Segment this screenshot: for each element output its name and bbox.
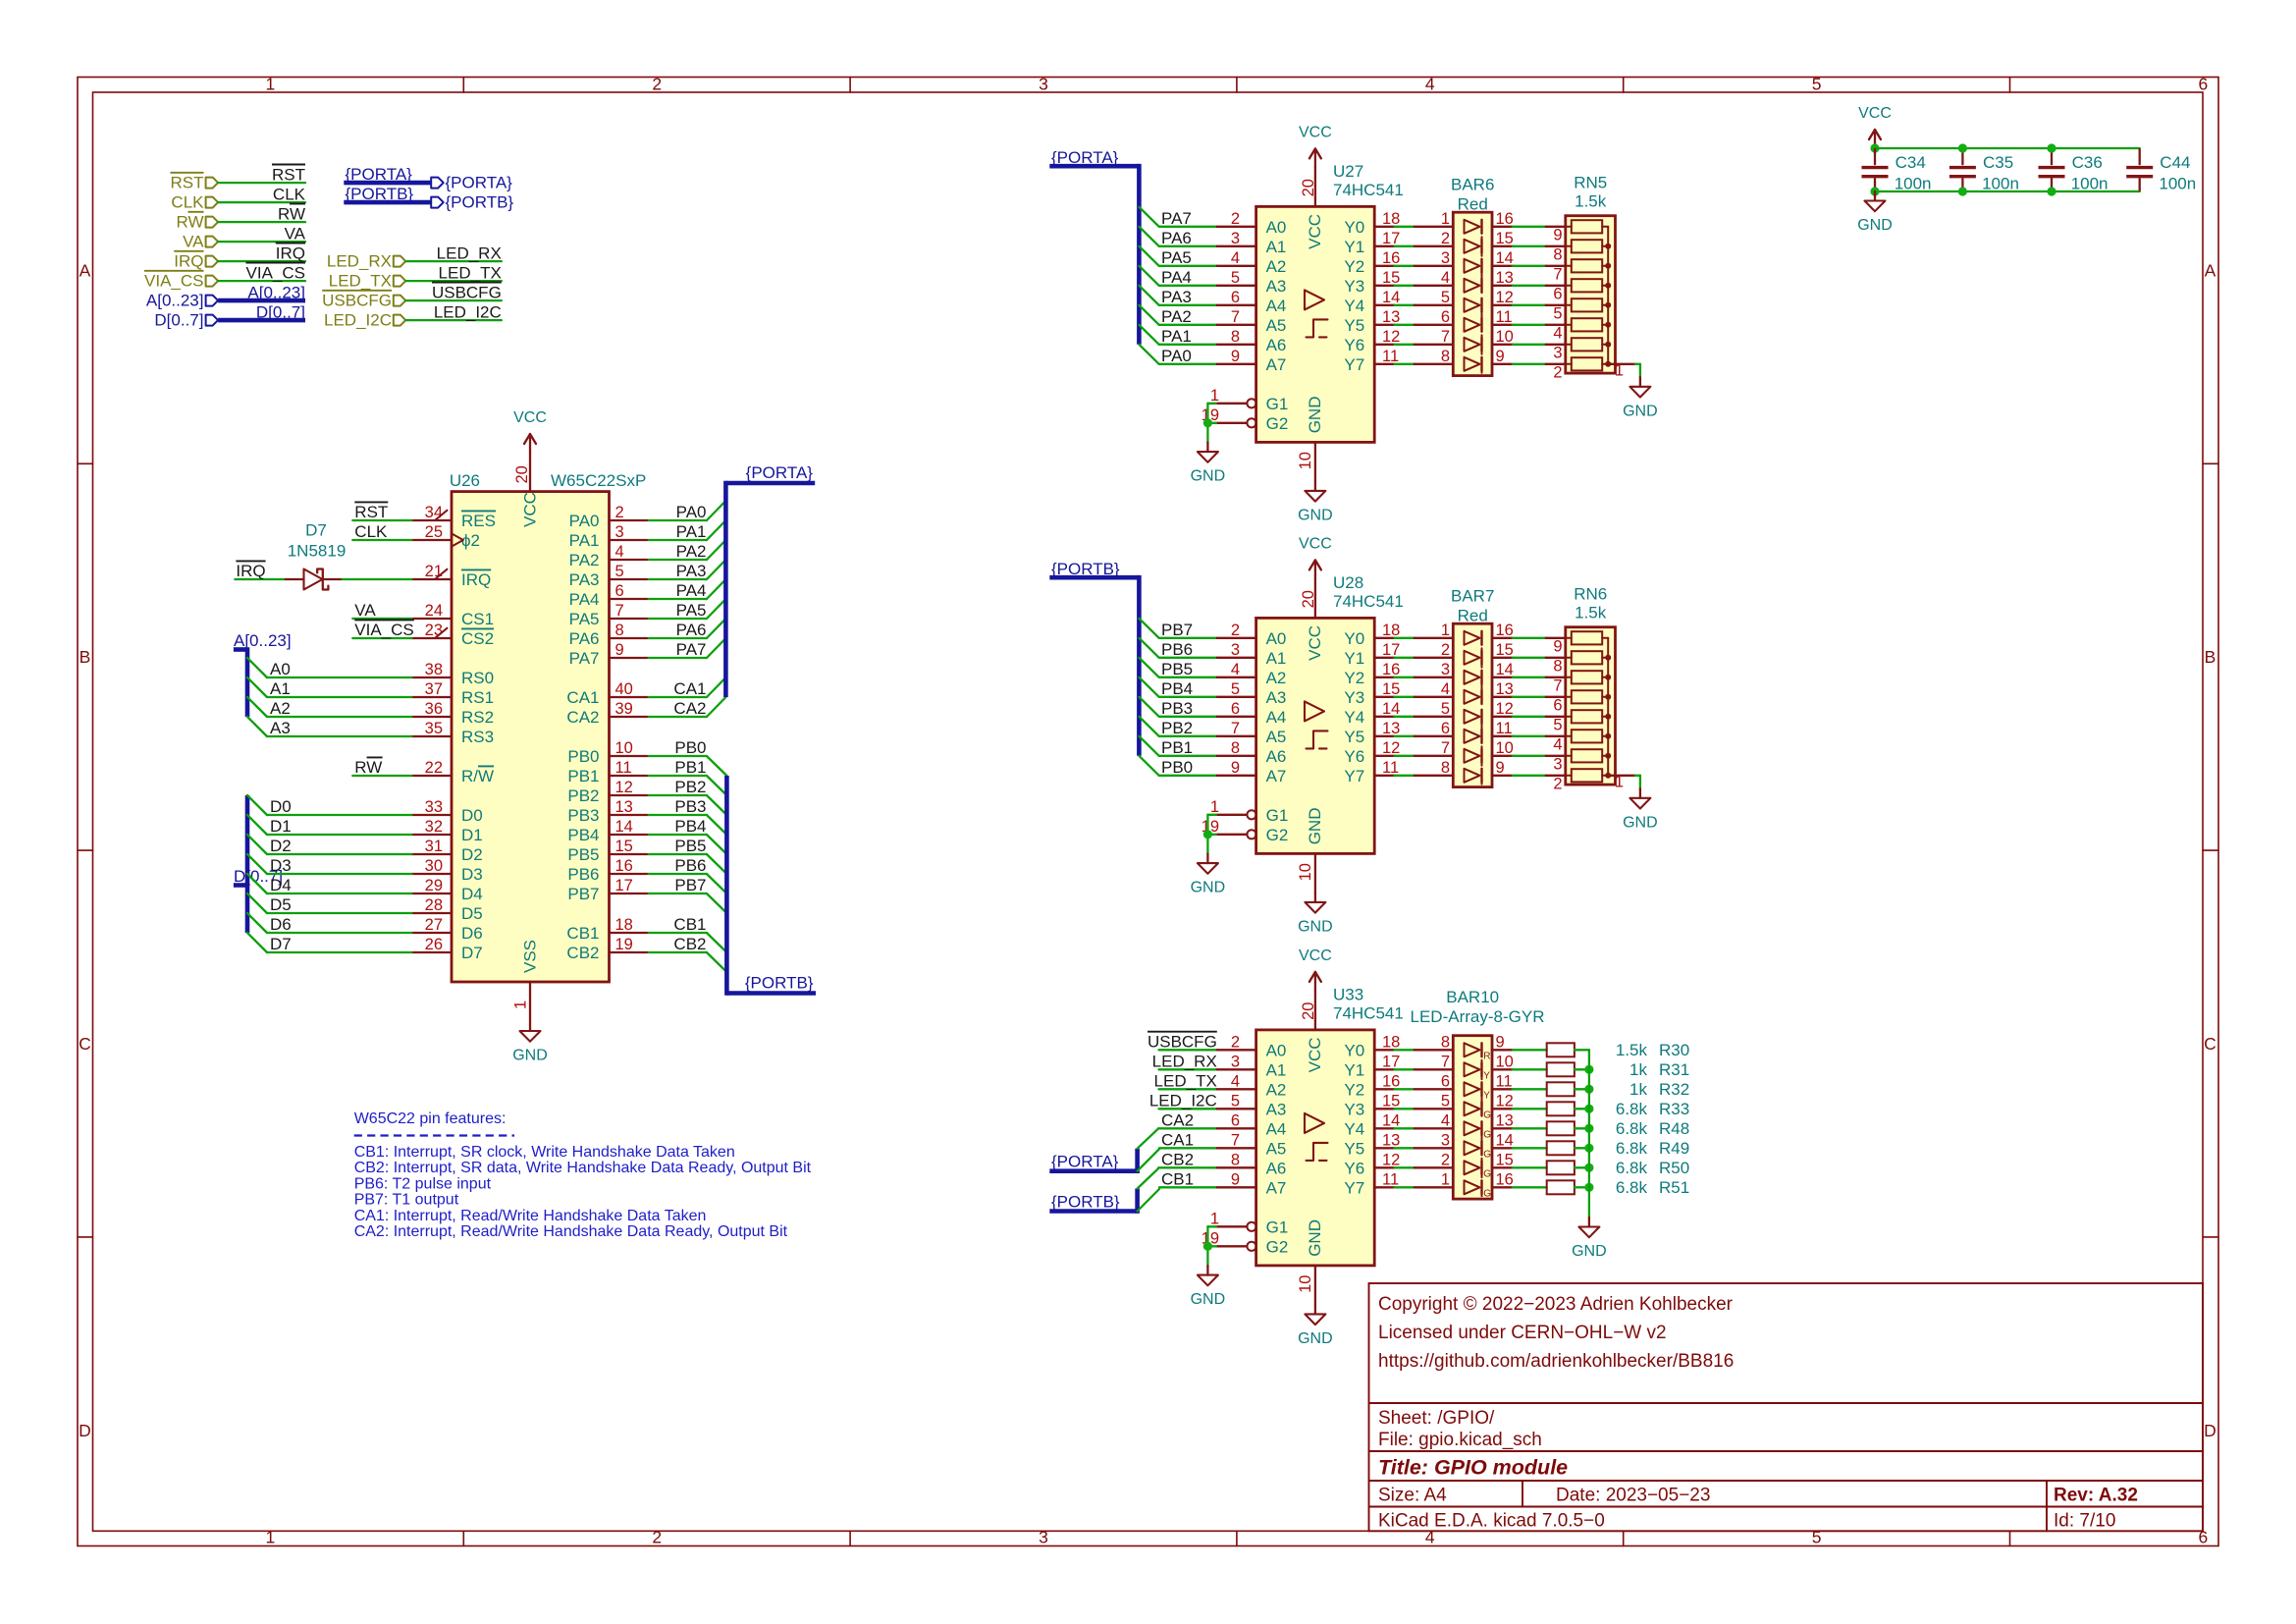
svg-text:R32: R32 xyxy=(1659,1080,1689,1099)
svg-text:U28: U28 xyxy=(1333,573,1363,592)
svg-text:{PORTB}: {PORTB} xyxy=(745,974,814,993)
svg-text:Sheet: /GPIO/: Sheet: /GPIO/ xyxy=(1378,1408,1495,1429)
svg-text:PA5: PA5 xyxy=(1161,248,1192,267)
svg-text:PB0: PB0 xyxy=(567,747,599,766)
svg-text:3: 3 xyxy=(1553,344,1562,361)
svg-text:14: 14 xyxy=(1496,249,1514,267)
svg-text:3: 3 xyxy=(1039,1528,1048,1547)
svg-text:4: 4 xyxy=(1553,324,1562,342)
svg-text:31: 31 xyxy=(425,838,443,855)
svg-text:20: 20 xyxy=(1300,590,1317,608)
svg-text:8: 8 xyxy=(1553,657,1562,675)
svg-text:PA2: PA2 xyxy=(1161,307,1192,326)
svg-text:VCC: VCC xyxy=(1306,214,1324,249)
svg-text:7: 7 xyxy=(1553,677,1562,694)
svg-text:Y: Y xyxy=(1483,1071,1490,1082)
svg-text:15: 15 xyxy=(1382,269,1400,287)
svg-text:D5: D5 xyxy=(461,904,483,923)
svg-text:36: 36 xyxy=(425,700,443,718)
svg-text:RN5: RN5 xyxy=(1574,173,1607,191)
svg-text:17: 17 xyxy=(1382,1053,1400,1070)
svg-text:3: 3 xyxy=(615,523,624,541)
svg-text:29: 29 xyxy=(425,877,443,894)
svg-text:A[0..23]: A[0..23] xyxy=(146,292,204,310)
svg-text:A5: A5 xyxy=(1266,728,1287,746)
svg-text:RW: RW xyxy=(354,758,382,777)
svg-text:D2: D2 xyxy=(461,845,483,864)
svg-text:PB7: PB7 xyxy=(1161,621,1193,639)
svg-text:PB6: PB6 xyxy=(567,865,599,884)
svg-text:13: 13 xyxy=(1382,720,1400,737)
svg-text:R51: R51 xyxy=(1659,1178,1689,1197)
svg-text:A7: A7 xyxy=(1266,767,1287,785)
svg-text:16: 16 xyxy=(1496,622,1514,639)
svg-text:{PORTB}: {PORTB} xyxy=(446,193,514,212)
svg-text:9: 9 xyxy=(1496,1033,1505,1051)
svg-text:D7: D7 xyxy=(461,944,483,962)
svg-text:17: 17 xyxy=(615,877,633,894)
svg-text:4: 4 xyxy=(1441,1111,1450,1129)
svg-text:A0: A0 xyxy=(1266,1042,1287,1060)
svg-text:A0: A0 xyxy=(1266,629,1287,648)
svg-text:Y0: Y0 xyxy=(1344,629,1364,648)
svg-text:VA: VA xyxy=(285,224,306,243)
svg-text:7: 7 xyxy=(615,602,624,620)
svg-text:{PORTA}: {PORTA} xyxy=(746,463,814,482)
svg-text:VCC: VCC xyxy=(1306,1037,1324,1072)
svg-text:CA2: CA2 xyxy=(673,699,706,718)
svg-text:G: G xyxy=(1483,1189,1491,1200)
svg-text:CA1: CA1 xyxy=(673,679,706,698)
svg-text:LED_I2C: LED_I2C xyxy=(1149,1092,1217,1110)
svg-text:A7: A7 xyxy=(1266,1179,1287,1198)
svg-text:16: 16 xyxy=(1382,249,1400,267)
svg-text:A1: A1 xyxy=(1266,1061,1287,1080)
svg-text:A[0..23]: A[0..23] xyxy=(234,631,292,650)
svg-text:PB6: PB6 xyxy=(674,856,706,875)
svg-text:Red: Red xyxy=(1458,606,1488,624)
svg-text:35: 35 xyxy=(425,720,443,737)
svg-text:G1: G1 xyxy=(1266,395,1289,413)
svg-text:20: 20 xyxy=(1300,179,1317,196)
svg-text:Y1: Y1 xyxy=(1344,1061,1364,1080)
svg-text:CS1: CS1 xyxy=(461,610,494,628)
svg-text:19: 19 xyxy=(615,936,633,953)
svg-text:6.8k: 6.8k xyxy=(1616,1100,1648,1118)
svg-text:R50: R50 xyxy=(1659,1159,1689,1177)
svg-text:R30: R30 xyxy=(1659,1041,1689,1059)
svg-text:100n: 100n xyxy=(2071,174,2109,192)
svg-text:D6: D6 xyxy=(270,915,292,934)
svg-text:Y6: Y6 xyxy=(1344,336,1364,354)
svg-text:PA5: PA5 xyxy=(676,601,707,620)
svg-text:GND: GND xyxy=(1306,397,1324,434)
svg-text:R: R xyxy=(1483,1052,1490,1062)
svg-text:CB1: Interrupt, SR clock, Writ: CB1: Interrupt, SR clock, Write Handshak… xyxy=(354,1144,735,1161)
svg-text:3: 3 xyxy=(1441,249,1450,267)
svg-text:12: 12 xyxy=(1496,1092,1514,1110)
svg-text:PB4: PB4 xyxy=(1161,679,1193,698)
svg-text:PA6: PA6 xyxy=(569,629,600,648)
svg-text:13: 13 xyxy=(1382,1131,1400,1149)
svg-text:5: 5 xyxy=(1812,75,1822,94)
svg-text:Licensed under CERN−OHL−W v2: Licensed under CERN−OHL−W v2 xyxy=(1378,1323,1667,1343)
svg-text:11: 11 xyxy=(1382,348,1399,365)
svg-text:2: 2 xyxy=(1231,210,1240,228)
svg-text:PB3: PB3 xyxy=(674,797,706,816)
svg-text:8: 8 xyxy=(1231,328,1240,346)
svg-text:11: 11 xyxy=(1496,1072,1513,1090)
svg-text:PB1: PB1 xyxy=(674,758,706,777)
svg-text:RS2: RS2 xyxy=(461,708,494,727)
svg-text:9: 9 xyxy=(1231,1170,1240,1188)
svg-text:20: 20 xyxy=(1300,1002,1317,1020)
svg-text:4: 4 xyxy=(1231,661,1240,678)
svg-text:3: 3 xyxy=(1231,1053,1240,1070)
svg-text:4: 4 xyxy=(1553,735,1562,753)
svg-text:38: 38 xyxy=(425,661,443,678)
svg-text:2: 2 xyxy=(1231,1033,1240,1051)
svg-text:14: 14 xyxy=(1496,661,1514,678)
svg-text:39: 39 xyxy=(615,700,633,718)
svg-text:27: 27 xyxy=(425,916,443,934)
svg-text:6: 6 xyxy=(1553,285,1562,302)
svg-text:CB1: CB1 xyxy=(566,924,599,943)
svg-text:Y5: Y5 xyxy=(1344,1140,1364,1159)
svg-text:5: 5 xyxy=(1441,289,1450,306)
svg-text:9: 9 xyxy=(1553,226,1562,244)
svg-text:GND: GND xyxy=(1191,468,1226,485)
svg-text:3: 3 xyxy=(1441,661,1450,678)
svg-text:D0: D0 xyxy=(461,806,483,825)
svg-text:3: 3 xyxy=(1231,230,1240,247)
svg-text:CLK: CLK xyxy=(273,185,306,203)
svg-text:1.5k: 1.5k xyxy=(1616,1041,1648,1059)
svg-text:G: G xyxy=(1483,1110,1491,1121)
svg-text:11: 11 xyxy=(1496,720,1513,737)
svg-text:10: 10 xyxy=(1297,1275,1314,1293)
svg-text:D2: D2 xyxy=(270,837,292,855)
svg-text:A4: A4 xyxy=(1266,708,1287,727)
svg-text:A5: A5 xyxy=(1266,316,1287,335)
svg-text:7: 7 xyxy=(1231,720,1240,737)
svg-text:1.5k: 1.5k xyxy=(1575,191,1607,210)
svg-text:CLK: CLK xyxy=(171,193,204,212)
svg-text:PB6: PB6 xyxy=(1161,640,1193,659)
svg-text:LED_I2C: LED_I2C xyxy=(324,311,392,330)
svg-text:A3: A3 xyxy=(1266,1101,1287,1119)
svg-text:6: 6 xyxy=(1441,1072,1450,1090)
svg-text:D0: D0 xyxy=(270,797,292,816)
svg-text:W65C22SxP: W65C22SxP xyxy=(551,471,646,490)
svg-text:Id: 7/10: Id: 7/10 xyxy=(2054,1511,2115,1532)
svg-text:5: 5 xyxy=(1441,700,1450,718)
svg-text:2: 2 xyxy=(652,1528,662,1547)
svg-text:{PORTA}: {PORTA} xyxy=(1051,1153,1119,1171)
svg-text:VIA_CS: VIA_CS xyxy=(144,272,203,291)
svg-text:11: 11 xyxy=(1496,308,1513,326)
svg-text:B: B xyxy=(2205,647,2216,667)
svg-text:D3: D3 xyxy=(461,865,483,884)
svg-text:USBCFG: USBCFG xyxy=(1148,1033,1217,1052)
svg-text:7: 7 xyxy=(1231,1131,1240,1149)
svg-text:PB5: PB5 xyxy=(1161,660,1193,678)
svg-text:13: 13 xyxy=(1496,1111,1514,1129)
svg-text:A4: A4 xyxy=(1266,297,1287,315)
svg-text:PA4: PA4 xyxy=(569,590,600,609)
svg-text:PB1: PB1 xyxy=(1161,738,1193,757)
svg-text:C44: C44 xyxy=(2160,153,2190,172)
svg-text:R31: R31 xyxy=(1659,1060,1689,1079)
svg-text:G: G xyxy=(1483,1169,1491,1180)
svg-text:26: 26 xyxy=(425,936,443,953)
svg-text:PB0: PB0 xyxy=(674,738,706,757)
svg-text:VCC: VCC xyxy=(1299,535,1332,552)
svg-text:A2: A2 xyxy=(1266,669,1287,687)
svg-text:PA1: PA1 xyxy=(1161,327,1192,346)
svg-text:A7: A7 xyxy=(1266,355,1287,374)
svg-text:{PORTB}: {PORTB} xyxy=(1051,1192,1120,1211)
svg-text:Title: GPIO module: Title: GPIO module xyxy=(1378,1456,1568,1480)
svg-text:RES: RES xyxy=(461,512,496,530)
svg-text:CA1: CA1 xyxy=(1161,1131,1194,1150)
svg-text:12: 12 xyxy=(1382,328,1400,346)
svg-text:Y4: Y4 xyxy=(1344,1120,1364,1139)
svg-text:D6: D6 xyxy=(461,924,483,943)
svg-text:15: 15 xyxy=(1382,1092,1400,1110)
svg-text:4: 4 xyxy=(1441,269,1450,287)
svg-text:100n: 100n xyxy=(1982,174,2019,192)
svg-text:17: 17 xyxy=(1382,641,1400,659)
svg-text:100n: 100n xyxy=(1895,174,1932,192)
svg-text:37: 37 xyxy=(425,680,443,698)
svg-text:5: 5 xyxy=(1231,1092,1240,1110)
svg-text:PA7: PA7 xyxy=(676,640,707,659)
svg-text:2: 2 xyxy=(1553,775,1562,792)
svg-text:Y3: Y3 xyxy=(1344,277,1364,296)
svg-text:CA2: CA2 xyxy=(566,708,599,727)
svg-text:D1: D1 xyxy=(461,826,483,844)
svg-text:5: 5 xyxy=(1231,269,1240,287)
svg-text:1.5k: 1.5k xyxy=(1575,603,1607,622)
svg-text:15: 15 xyxy=(1382,680,1400,698)
svg-text:16: 16 xyxy=(1496,1170,1514,1188)
svg-text:USBCFG: USBCFG xyxy=(322,292,392,310)
svg-text:U26: U26 xyxy=(450,471,480,490)
svg-text:74HC541: 74HC541 xyxy=(1333,181,1404,199)
svg-text:7: 7 xyxy=(1553,265,1562,283)
svg-text:IRQ: IRQ xyxy=(236,562,265,580)
svg-text:Y: Y xyxy=(1483,1091,1490,1102)
svg-text:Y2: Y2 xyxy=(1344,669,1364,687)
svg-text:1: 1 xyxy=(1441,622,1450,639)
svg-text:GND: GND xyxy=(1191,880,1226,896)
svg-text:PA2: PA2 xyxy=(676,542,707,561)
svg-text:PB2: PB2 xyxy=(674,778,706,796)
svg-text:10: 10 xyxy=(615,739,633,757)
svg-text:A2: A2 xyxy=(1266,257,1287,276)
svg-text:16: 16 xyxy=(1496,210,1514,228)
svg-text:15: 15 xyxy=(615,838,633,855)
svg-text:A6: A6 xyxy=(1266,1160,1287,1178)
svg-text:6: 6 xyxy=(2199,75,2209,94)
svg-text:12: 12 xyxy=(1496,700,1514,718)
svg-text:LED_I2C: LED_I2C xyxy=(434,302,502,321)
svg-text:PB0: PB0 xyxy=(1161,758,1193,777)
svg-text:15: 15 xyxy=(1496,230,1514,247)
svg-text:3: 3 xyxy=(1039,75,1048,94)
svg-text:D1: D1 xyxy=(270,817,292,836)
svg-text:Y7: Y7 xyxy=(1344,767,1364,785)
svg-text:9: 9 xyxy=(1231,348,1240,365)
svg-text:A0: A0 xyxy=(270,660,291,678)
svg-text:Y1: Y1 xyxy=(1344,649,1364,668)
svg-text:2: 2 xyxy=(1441,230,1450,247)
svg-text:5: 5 xyxy=(1553,304,1562,322)
svg-text:4: 4 xyxy=(1231,249,1240,267)
svg-text:PB6: T2 pulse input: PB6: T2 pulse input xyxy=(354,1175,492,1192)
svg-text:BAR7: BAR7 xyxy=(1451,586,1494,605)
svg-text:A: A xyxy=(2205,260,2216,280)
svg-text:CA2: Interrupt, Read/Write Han: CA2: Interrupt, Read/Write Handshake Dat… xyxy=(354,1223,788,1240)
svg-text:18: 18 xyxy=(1382,1033,1400,1051)
svg-text:PA0: PA0 xyxy=(1161,347,1192,365)
svg-text:8: 8 xyxy=(1441,759,1450,777)
svg-text:PB1: PB1 xyxy=(567,767,599,785)
svg-text:PB2: PB2 xyxy=(1161,719,1193,737)
svg-text:14: 14 xyxy=(1382,289,1400,306)
svg-text:12: 12 xyxy=(615,779,633,796)
svg-text:G2: G2 xyxy=(1266,826,1289,844)
svg-text:1: 1 xyxy=(1615,361,1624,379)
svg-text:D3: D3 xyxy=(270,856,292,875)
svg-text:A1: A1 xyxy=(270,679,291,698)
svg-text:74HC541: 74HC541 xyxy=(1333,1004,1404,1023)
svg-text:25: 25 xyxy=(425,523,443,541)
svg-text:GND: GND xyxy=(1306,1219,1324,1257)
svg-text:KiCad E.D.A. kicad 7.0.5−0: KiCad E.D.A. kicad 7.0.5−0 xyxy=(1378,1511,1605,1532)
svg-text:D: D xyxy=(2204,1421,2216,1440)
svg-text:9: 9 xyxy=(1496,759,1505,777)
svg-text:A[0..23]: A[0..23] xyxy=(247,283,305,301)
svg-text:1N5819: 1N5819 xyxy=(288,541,347,560)
svg-text:PA1: PA1 xyxy=(569,531,600,550)
svg-text:PB3: PB3 xyxy=(567,806,599,825)
svg-text:13: 13 xyxy=(615,798,633,816)
svg-text:CS2: CS2 xyxy=(461,629,494,648)
svg-text:Red: Red xyxy=(1458,194,1488,213)
svg-text:6.8k: 6.8k xyxy=(1616,1159,1648,1177)
svg-text:LED_TX: LED_TX xyxy=(329,272,392,291)
svg-text:GND: GND xyxy=(1298,507,1333,523)
svg-text:VCC: VCC xyxy=(1306,625,1324,661)
svg-text:VIA_CS: VIA_CS xyxy=(246,263,305,282)
svg-text:2: 2 xyxy=(1441,1151,1450,1168)
svg-text:R/W: R/W xyxy=(461,767,494,785)
svg-text:VCC: VCC xyxy=(521,492,540,527)
svg-text:LED_TX: LED_TX xyxy=(1154,1072,1217,1091)
svg-text:3: 3 xyxy=(1553,755,1562,773)
svg-text:A3: A3 xyxy=(1266,277,1287,296)
svg-text:G1: G1 xyxy=(1266,806,1289,825)
svg-text:6.8k: 6.8k xyxy=(1616,1119,1648,1138)
svg-text:CB2: CB2 xyxy=(673,935,706,953)
svg-text:10: 10 xyxy=(1496,1053,1514,1070)
svg-text:22: 22 xyxy=(425,759,443,777)
svg-text:Y1: Y1 xyxy=(1344,238,1364,256)
svg-text:Y4: Y4 xyxy=(1344,708,1364,727)
svg-text:7: 7 xyxy=(1441,739,1450,757)
svg-text:CA1: CA1 xyxy=(566,688,599,707)
svg-text:G2: G2 xyxy=(1266,1238,1289,1257)
svg-text:LED_RX: LED_RX xyxy=(437,244,502,262)
svg-text:G1: G1 xyxy=(1266,1218,1289,1237)
svg-text:8: 8 xyxy=(615,622,624,639)
svg-text:G: G xyxy=(1483,1130,1491,1141)
svg-text:LED-Array-8-GYR: LED-Array-8-GYR xyxy=(1411,1007,1545,1026)
svg-text:W65C22 pin features:: W65C22 pin features: xyxy=(354,1110,507,1127)
svg-text:U27: U27 xyxy=(1333,162,1363,181)
svg-text:9: 9 xyxy=(615,641,624,659)
svg-text:1: 1 xyxy=(266,1528,276,1547)
svg-text:PB2: PB2 xyxy=(567,786,599,805)
svg-text:A6: A6 xyxy=(1266,336,1287,354)
svg-text:2: 2 xyxy=(1441,641,1450,659)
svg-text:1: 1 xyxy=(1441,1170,1450,1188)
svg-text:RS0: RS0 xyxy=(461,669,494,687)
svg-text:Y5: Y5 xyxy=(1344,728,1364,746)
svg-text:A0: A0 xyxy=(1266,218,1287,237)
svg-text:GND: GND xyxy=(1857,217,1893,234)
svg-text:23: 23 xyxy=(425,622,443,639)
svg-text:ϕ2: ϕ2 xyxy=(461,531,480,550)
svg-text:15: 15 xyxy=(1496,641,1514,659)
svg-text:A: A xyxy=(80,260,91,280)
svg-text:VIA_CS: VIA_CS xyxy=(354,621,413,639)
svg-text:6: 6 xyxy=(1231,1111,1240,1129)
svg-text:20: 20 xyxy=(513,465,531,483)
svg-text:C35: C35 xyxy=(1983,153,2013,172)
svg-text:10: 10 xyxy=(1496,739,1514,757)
svg-text:D[0..7]: D[0..7] xyxy=(256,302,305,321)
svg-text:PB5: PB5 xyxy=(674,837,706,855)
svg-text:BAR10: BAR10 xyxy=(1446,988,1499,1006)
svg-text:1: 1 xyxy=(266,75,276,94)
svg-text:C: C xyxy=(2204,1034,2216,1054)
svg-text:4: 4 xyxy=(1231,1072,1240,1090)
svg-text:VSS: VSS xyxy=(521,940,540,973)
svg-text:PA3: PA3 xyxy=(676,562,707,580)
svg-text:4: 4 xyxy=(1425,75,1435,94)
svg-text:14: 14 xyxy=(615,818,633,836)
svg-text:D4: D4 xyxy=(270,876,292,894)
svg-text:28: 28 xyxy=(425,896,443,914)
svg-text:PB7: PB7 xyxy=(674,876,706,894)
svg-text:4: 4 xyxy=(1441,680,1450,698)
svg-text:13: 13 xyxy=(1496,269,1514,287)
svg-text:2: 2 xyxy=(1553,363,1562,381)
svg-text:Y4: Y4 xyxy=(1344,297,1364,315)
svg-text:21: 21 xyxy=(425,563,443,580)
svg-text:G2: G2 xyxy=(1266,414,1289,433)
svg-text:6: 6 xyxy=(1231,289,1240,306)
svg-text:5: 5 xyxy=(1441,1092,1450,1110)
svg-text:U33: U33 xyxy=(1333,986,1363,1004)
svg-text:8: 8 xyxy=(1441,1033,1450,1051)
svg-text:GND: GND xyxy=(1298,1330,1333,1347)
svg-text:24: 24 xyxy=(425,602,443,620)
svg-text:PB5: PB5 xyxy=(567,845,599,864)
